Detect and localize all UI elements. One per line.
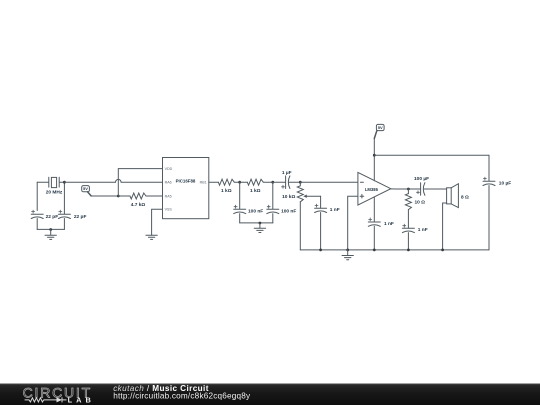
wire bottom of 22pF caps: [37, 228, 64, 230]
svg-text:22 pF: 22 pF: [46, 214, 59, 220]
resistor R5 10 Ohm: [405, 189, 411, 228]
capacitor C4 100 nF: [267, 182, 279, 223]
svg-text:5V: 5V: [83, 186, 88, 191]
junction dot C7 rail: [373, 249, 376, 252]
op-amp U2 LM386: [358, 172, 391, 205]
wiper wire down to C6: [320, 196, 322, 208]
svg-text:4.7 kΩ: 4.7 kΩ: [131, 202, 146, 208]
capacitor C9 100 uF: [417, 183, 447, 196]
svg-text:LM386: LM386: [365, 187, 379, 192]
svg-text:10 µF: 10 µF: [499, 181, 511, 187]
junction dot 5V/VDD/4.7k: [117, 195, 120, 198]
crystal X1 20 MHz: [37, 177, 64, 187]
wire V+ pin vertical: [373, 139, 375, 181]
svg-text:10 Ω: 10 Ω: [415, 200, 426, 206]
junction dot speaker rail: [441, 249, 444, 252]
junction dot output / zobel: [407, 188, 410, 191]
svg-text:RA6: RA6: [165, 181, 172, 185]
capacitor C2 22 pF: [58, 182, 70, 229]
svg-text:1 nF: 1 nF: [384, 221, 394, 227]
resistor R3 1 kOhm: [247, 179, 272, 185]
ground G3: [254, 223, 265, 233]
wire 5V to junction: [91, 195, 118, 197]
junction dot C5 out: [299, 181, 302, 184]
junction dot caps bottom: [49, 228, 52, 231]
wire output: [391, 188, 421, 190]
svg-text:100 nF: 100 nF: [248, 208, 263, 214]
svg-text:1 kΩ: 1 kΩ: [221, 188, 232, 194]
wire to inverting input: [300, 181, 358, 183]
capacitor C3 100 nF: [234, 182, 246, 223]
junction dot C6 rail: [319, 249, 322, 252]
junction dot V+ / top rail: [373, 154, 376, 157]
capacitor C5 1 uF: [273, 176, 301, 189]
voltage flag V2 5V: [374, 124, 384, 138]
speaker SP1 8 Ohm: [443, 184, 459, 250]
junction dot ground rail: [346, 249, 349, 252]
svg-text:5V: 5V: [378, 125, 383, 130]
IC U1 PIC16F88: [163, 158, 209, 219]
resistor R1 4.7 kOhm: [118, 193, 162, 199]
ground G1: [45, 230, 56, 240]
wire VSS to ground: [152, 209, 163, 235]
svg-text:LAB: LAB: [68, 396, 95, 405]
capacitor C8 1 nF zobel: [402, 224, 414, 250]
junction dot crystal right: [63, 181, 66, 184]
capacitor C6 1 nF: [315, 204, 327, 250]
svg-text:22 pF: 22 pF: [74, 214, 87, 220]
logo resistor squiggle and diode: [25, 397, 67, 402]
junction dot 100nF ground: [259, 222, 262, 225]
svg-text:10 kΩ: 10 kΩ: [282, 194, 295, 200]
wire left vertical from crystal to C1: [36, 182, 38, 210]
svg-text:1 nF: 1 nF: [330, 207, 340, 213]
svg-text:100 nF: 100 nF: [281, 208, 296, 214]
junction dot C8 rail: [407, 249, 410, 252]
svg-text:PIC16F88: PIC16F88: [176, 179, 196, 184]
svg-text:1 µF: 1 µF: [282, 170, 292, 176]
wire bottom rail: [300, 249, 489, 251]
ground G4: [342, 250, 353, 260]
svg-text:RA5: RA5: [165, 194, 172, 198]
wire bypass pin down: [373, 197, 375, 222]
wire top rail: [374, 154, 489, 156]
svg-text:100 µF: 100 µF: [414, 176, 429, 182]
junction dot R3/C4/C5: [271, 181, 274, 184]
svg-text:VDD: VDD: [165, 167, 173, 171]
svg-text:1 nF: 1 nF: [418, 227, 428, 233]
capacitor C7 1 nF bypass: [368, 218, 380, 250]
svg-text:http://circuitlab.com/c8k62cq6: http://circuitlab.com/c8k62cq6egq8y: [113, 392, 251, 401]
wire R2 to R3: [240, 181, 248, 183]
capacitor C10 10 uF: [483, 155, 495, 250]
wire VDD vertical and horizontal: [118, 169, 162, 196]
wire bottom of 100nF caps: [240, 222, 273, 224]
wire noninverting input to ground rail: [348, 196, 358, 250]
potentiometer R4 10 kOhm: [297, 182, 320, 250]
svg-text:VSS: VSS: [165, 208, 173, 212]
svg-text:1 kΩ: 1 kΩ: [250, 188, 261, 194]
voltage flag V1 5V: [82, 186, 91, 196]
wire RA6 net with hop over VDD line: [64, 179, 162, 182]
svg-text:8 Ω: 8 Ω: [461, 194, 469, 200]
svg-text:RB1: RB1: [200, 181, 207, 185]
junction dot R2/R3/C3: [238, 181, 241, 184]
svg-text:20 MHz: 20 MHz: [46, 190, 63, 196]
resistor R2 1 kOhm: [209, 179, 240, 185]
capacitor C1 22 pF: [31, 210, 43, 229]
ground G2: [146, 235, 157, 239]
